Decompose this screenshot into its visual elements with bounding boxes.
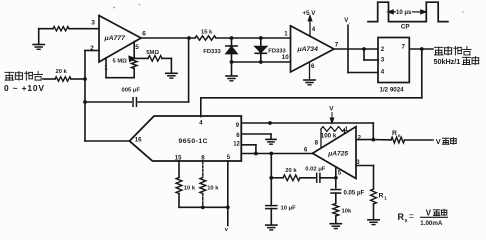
svg-text:R: R [392,130,397,137]
svg-text:7: 7 [335,41,339,48]
svg-text:5 MΩ: 5 MΩ [113,59,128,65]
svg-text:2: 2 [381,46,385,53]
svg-text:0.05 μF: 0.05 μF [344,191,365,197]
svg-text:R: R [379,193,384,200]
svg-text:6: 6 [142,30,146,37]
svg-text:16: 16 [135,137,142,143]
svg-text:50kHz/1: 50kHz/1 [434,57,461,66]
svg-text:6: 6 [311,63,315,70]
svg-text:CP: CP [401,24,411,31]
svg-text:2: 2 [90,45,94,52]
svg-text:0 ~ +10V: 0 ~ +10V [4,83,45,93]
svg-text:15: 15 [175,156,182,162]
svg-text:1: 1 [384,195,387,200]
svg-text:V: V [344,18,348,24]
svg-text:V: V [329,106,334,113]
svg-text:10 μs: 10 μs [396,10,412,16]
svg-text:5: 5 [135,44,139,51]
svg-text:μA725: μA725 [327,151,348,158]
svg-text:1.00mA: 1.00mA [420,220,443,227]
svg-text:=: = [409,211,414,221]
svg-text:10k: 10k [342,208,352,214]
svg-text:V: V [436,137,441,146]
svg-text:R: R [398,212,405,222]
svg-text:3: 3 [91,20,95,27]
svg-text:s: s [398,133,401,138]
svg-text:1: 1 [284,31,288,38]
svg-text:10 μF: 10 μF [281,206,297,212]
svg-text:20 k: 20 k [285,168,297,174]
svg-text:V: V [426,209,432,218]
svg-text:5MΩ: 5MΩ [146,50,159,56]
svg-text:+5 V: +5 V [303,10,317,17]
svg-text:μA734: μA734 [297,46,319,53]
svg-text:FD333: FD333 [203,49,221,55]
svg-text:20 k: 20 k [56,69,68,75]
svg-text:1/2 9024: 1/2 9024 [380,86,405,93]
svg-text:4: 4 [312,26,316,33]
svg-text:10 k: 10 k [207,186,219,192]
svg-text:3: 3 [381,57,385,64]
svg-text:μA777: μA777 [104,35,127,42]
svg-text:s: s [405,218,408,224]
svg-text:15 k: 15 k [201,30,213,36]
svg-text:7: 7 [402,44,406,51]
svg-text:1: 1 [104,64,108,71]
svg-text:005 μF: 005 μF [122,87,141,93]
svg-text:12: 12 [233,142,240,148]
svg-text:0.02 μF: 0.02 μF [305,167,325,173]
svg-text:9650-1C: 9650-1C [179,138,209,145]
svg-text:100 k: 100 k [321,133,337,140]
svg-text:10 k: 10 k [184,186,196,192]
svg-text:10: 10 [282,54,289,61]
svg-text:4: 4 [381,69,385,76]
